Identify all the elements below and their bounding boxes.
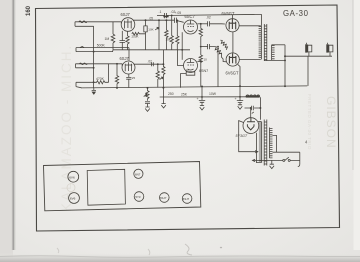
resistor R9 plate load drop: [199, 24, 202, 87]
page left edge line: [11, 0, 14, 250]
capacitor C8 coupling top .02: [208, 21, 225, 26]
svg-text:6N7: 6N7: [135, 172, 141, 176]
node dot rail A x145: [145, 19, 147, 21]
speaker SP1 frame: [306, 43, 311, 56]
node dot PI: [200, 46, 202, 48]
wire V6 plate to OPT: [239, 58, 261, 60]
capacitor C5 tone: [145, 102, 150, 106]
wire PI return riser: [217, 47, 219, 87]
tube V5 6V6GT: [226, 19, 239, 32]
wire rail cathode return ch1: [113, 49, 190, 51]
capacitor C9 coupling lower .02: [208, 44, 215, 49]
node dot loop2: [284, 59, 286, 61]
tube V1 6SJ7: [121, 18, 135, 32]
node dot bus J3: [93, 67, 95, 69]
ghost ring bleedthrough: [67, 184, 75, 192]
resistor R11 diagonal crossing: [220, 40, 227, 50]
svg-text:GIBSON: GIBSON: [324, 96, 338, 149]
svg-text:25K: 25K: [181, 92, 188, 96]
wire V3 plate line: [197, 23, 207, 25]
wire mains line 2 with switch S1: [253, 157, 300, 160]
wire secondary bottom to loop: [264, 59, 285, 61]
wire PI mid line: [201, 46, 208, 48]
tube V7 5Y3GT rectifier: [243, 118, 259, 134]
node dot rail1 x285: [284, 85, 286, 87]
wire main lower rail (common): [81, 86, 307, 88]
node dot cathode rail: [181, 49, 183, 51]
potentiometer VR3 volume 2 riser: [160, 50, 165, 88]
svg-text:1M: 1M: [105, 37, 110, 41]
svg-text:25: 25: [132, 76, 136, 80]
speaker SP2 frame: [328, 43, 333, 56]
svg-text:1K: 1K: [186, 68, 189, 72]
svg-text:160: 160: [26, 5, 32, 16]
connector arrow filament: [255, 151, 258, 153]
svg-text:6SC7: 6SC7: [185, 14, 196, 19]
svg-text:.02: .02: [148, 60, 153, 64]
wire choke to PT top: [259, 97, 261, 120]
node dot x166 rail: [165, 19, 167, 21]
svg-text:6SJ7: 6SJ7: [183, 197, 190, 201]
right page edge faint line: [353, 0, 354, 170]
ground tone network: [145, 106, 150, 111]
node dot rail A x159: [158, 19, 160, 21]
resistor R8 V2 plate load: [156, 64, 159, 87]
speaker SP2 magnet bar: [326, 44, 328, 52]
resistor R1 1M grid leak: [111, 22, 115, 50]
wire rail2 (B+ distribution): [160, 96, 247, 98]
layout power transformer square: [87, 169, 125, 205]
wire speaker bus: [285, 55, 332, 57]
resistor R13 screen feed horizontal: [132, 32, 146, 35]
connector arrow mains: [253, 159, 256, 161]
svg-text:6V6GT: 6V6GT: [226, 71, 239, 76]
resistor R6 grid 1M: [176, 20, 179, 49]
wire V3 cathode link to V4: [181, 32, 183, 60]
wire J1 to V1 grid: [120, 22, 122, 24]
wire J4 riser to J3 line: [108, 64, 110, 83]
svg-text:10K: 10K: [148, 27, 153, 31]
node dot rail1 x202: [201, 85, 203, 87]
node dot V4 plate: [200, 61, 202, 63]
wire V4 plate: [197, 61, 200, 63]
transformer T1 secondary: [272, 45, 275, 60]
wire PT HV bottom to rectifier: [257, 133, 262, 163]
wire rectifier cathode up: [250, 108, 252, 118]
capacitor C7 filter + ground at x240: [237, 86, 243, 109]
capacitor C2 mixer .1: [165, 13, 172, 18]
node dot mixer: [171, 14, 173, 16]
bottom shadow band: [0, 253, 360, 262]
ground below rail2 at x163: [161, 99, 166, 108]
resistor R10 diagonal to lower grid: [215, 47, 227, 62]
resistor R4 screen (box style): [144, 20, 147, 50]
svg-text:6V6GT: 6V6GT: [222, 11, 235, 16]
node dot at rail x240: [239, 85, 241, 87]
wire ground bus from J1 down to chassis rail: [93, 26, 95, 87]
svg-text:10W: 10W: [209, 92, 217, 96]
svg-text:FRETTED GA-30 TRIO: FRETTED GA-30 TRIO: [307, 94, 312, 150]
resistor R2 470K inline J4: [88, 81, 109, 84]
jack J4: [76, 82, 88, 88]
resistor R7 V2 grid leak: [115, 64, 118, 88]
svg-text:6SJ7: 6SJ7: [160, 196, 167, 200]
svg-text:1M: 1M: [166, 38, 171, 42]
layout tube 6SC7 top: [134, 169, 143, 178]
node dot plate junction: [200, 23, 202, 25]
svg-text:.05: .05: [149, 17, 154, 21]
transformer T2 secondary winding: [270, 128, 273, 159]
wire mains line 1: [273, 151, 300, 153]
cap blob dark dash: [163, 16, 168, 18]
node dot grid leak: [116, 63, 118, 65]
capacitor C11 plate series .02: [152, 62, 154, 66]
svg-text:5Y3: 5Y3: [135, 195, 141, 199]
resistor R3 cathode: [126, 31, 129, 50]
svg-text:6SJ7: 6SJ7: [120, 56, 130, 61]
wire speaker return riser: [307, 56, 309, 86]
wire V5 plate to OPT: [239, 25, 261, 27]
schematic frame border: [36, 5, 340, 231]
tube V3 6SC7 (top triode): [184, 20, 198, 34]
layout tube 6V6 upper: [68, 171, 79, 182]
wire cathode link V5-V6: [232, 32, 234, 53]
layout tube 6SJ7 a: [160, 193, 170, 203]
svg-text:+: +: [197, 97, 199, 101]
svg-text:6SN7: 6SN7: [199, 69, 208, 73]
wire V4 grid feed: [178, 50, 184, 66]
node dot PI riser: [217, 46, 219, 48]
svg-text:GA-30: GA-30: [283, 9, 309, 18]
svg-text:10: 10: [204, 58, 208, 62]
jack J1 tip contact squiggle: [79, 21, 87, 22]
layout tube 5Y3: [134, 192, 144, 202]
svg-text:6V6: 6V6: [69, 175, 75, 179]
layout tube 6V6 lower: [69, 193, 80, 204]
tube V6 6V6GT: [226, 53, 239, 66]
svg-text:250: 250: [168, 92, 174, 96]
wire J3 to V2 grid: [121, 64, 123, 66]
mark below cap: [252, 112, 254, 114]
svg-text:6SJ7: 6SJ7: [121, 12, 131, 17]
transformer T2 power primary winding: [259, 122, 262, 163]
wire feedback riser: [284, 45, 286, 86]
node dot loop: [284, 55, 286, 57]
wire B+ stub rail upper left: [157, 14, 165, 16]
node dot x177: [176, 19, 178, 21]
wire PT HV top to rectifier: [258, 121, 261, 123]
capacitor C4 V2 cathode bypass: [126, 74, 131, 88]
inductor L1 filter choke: [246, 95, 260, 97]
speaker SP1 magnet bar: [305, 44, 307, 52]
ground power transformer: [270, 161, 275, 169]
svg-text:KALAMAZOO - MICH.: KALAMAZOO - MICH.: [59, 44, 74, 212]
wire filament loop left: [239, 121, 258, 152]
jack J1 (mic input): [75, 22, 121, 27]
transformer T1 core: [264, 24, 267, 61]
svg-text:+.05: +.05: [175, 11, 182, 15]
node dot VR3: [162, 63, 164, 65]
svg-text:6V6: 6V6: [70, 197, 76, 201]
switch S1 contacts: [283, 159, 285, 161]
svg-text:470K: 470K: [96, 77, 105, 81]
node dot cap junction: [259, 107, 261, 109]
resistor R14 mixer divider: [165, 20, 168, 50]
wire heater tap: [273, 136, 277, 153]
transformer T2 core: [264, 120, 267, 166]
node dot rail1 x147: [147, 87, 149, 89]
node dot rail2 x240: [239, 96, 241, 98]
tube V2 6SJ7: [122, 61, 135, 74]
svg-text:+: +: [235, 97, 237, 101]
paper crease marks bottom: [185, 244, 192, 255]
node dot rect feed: [250, 107, 252, 109]
resistor R12 V4 cathode (box): [181, 72, 195, 88]
capacitor C6 filter + ground at x202: [199, 86, 205, 110]
node dot rail2 x202: [201, 96, 203, 98]
wire J2 to V2 grid cap: [128, 48, 130, 61]
resistor R5 mixer 1M: [170, 15, 173, 49]
svg-text:250K: 250K: [132, 35, 139, 39]
svg-text:.02: .02: [206, 15, 211, 19]
wire secondary top to loop: [272, 44, 285, 46]
wire B+ top rail: [172, 14, 262, 15]
wire V6 cathode drop to rail: [238, 65, 240, 87]
potentiometer VR2 tone below rail: [144, 88, 149, 101]
node dot bus J4 tip: [93, 81, 95, 83]
node dot rail1 x163: [162, 87, 164, 89]
wire V2 plate: [134, 63, 164, 65]
layout box chassis outline: [44, 162, 201, 211]
potentiometer VR1 volume 1: [155, 20, 159, 50]
wire mains cord drop: [298, 152, 300, 166]
transformer T1 output primary: [259, 26, 262, 60]
node dot bus J2: [93, 51, 95, 53]
jack J3: [76, 64, 123, 68]
jack J3 tip contact squiggle: [80, 63, 88, 64]
layout tube 6SJ7 b: [182, 194, 192, 204]
ground arrowhead filled: [92, 92, 97, 95]
capacitor C10 reservoir: [245, 106, 261, 111]
capacitor C1 cathode bypass: [120, 31, 126, 50]
jack J2: [76, 48, 129, 52]
svg-text:500K: 500K: [97, 43, 106, 47]
wire B+ center tap down to primary: [261, 14, 263, 25]
tube V4 6SC7 (bottom triode): [184, 59, 198, 73]
node dot rail1 x117: [116, 87, 118, 89]
wire screen riser V5 to B+ rail: [231, 15, 233, 19]
ground chassis at input bus: [92, 88, 96, 91]
node dot V2 plate: [157, 63, 159, 65]
jack J2 tip contact tick: [80, 47, 84, 48]
wire riser rail1-rail2: [163, 87, 165, 99]
capacitor C3 coupling to V3 grid: [167, 18, 184, 23]
wire V1 plate to coupling rail: [133, 19, 167, 21]
left margin strip outside page edge: [0, 0, 13, 262]
svg-text:.1: .1: [159, 10, 162, 14]
svg-text:5Y3GT: 5Y3GT: [236, 134, 248, 138]
